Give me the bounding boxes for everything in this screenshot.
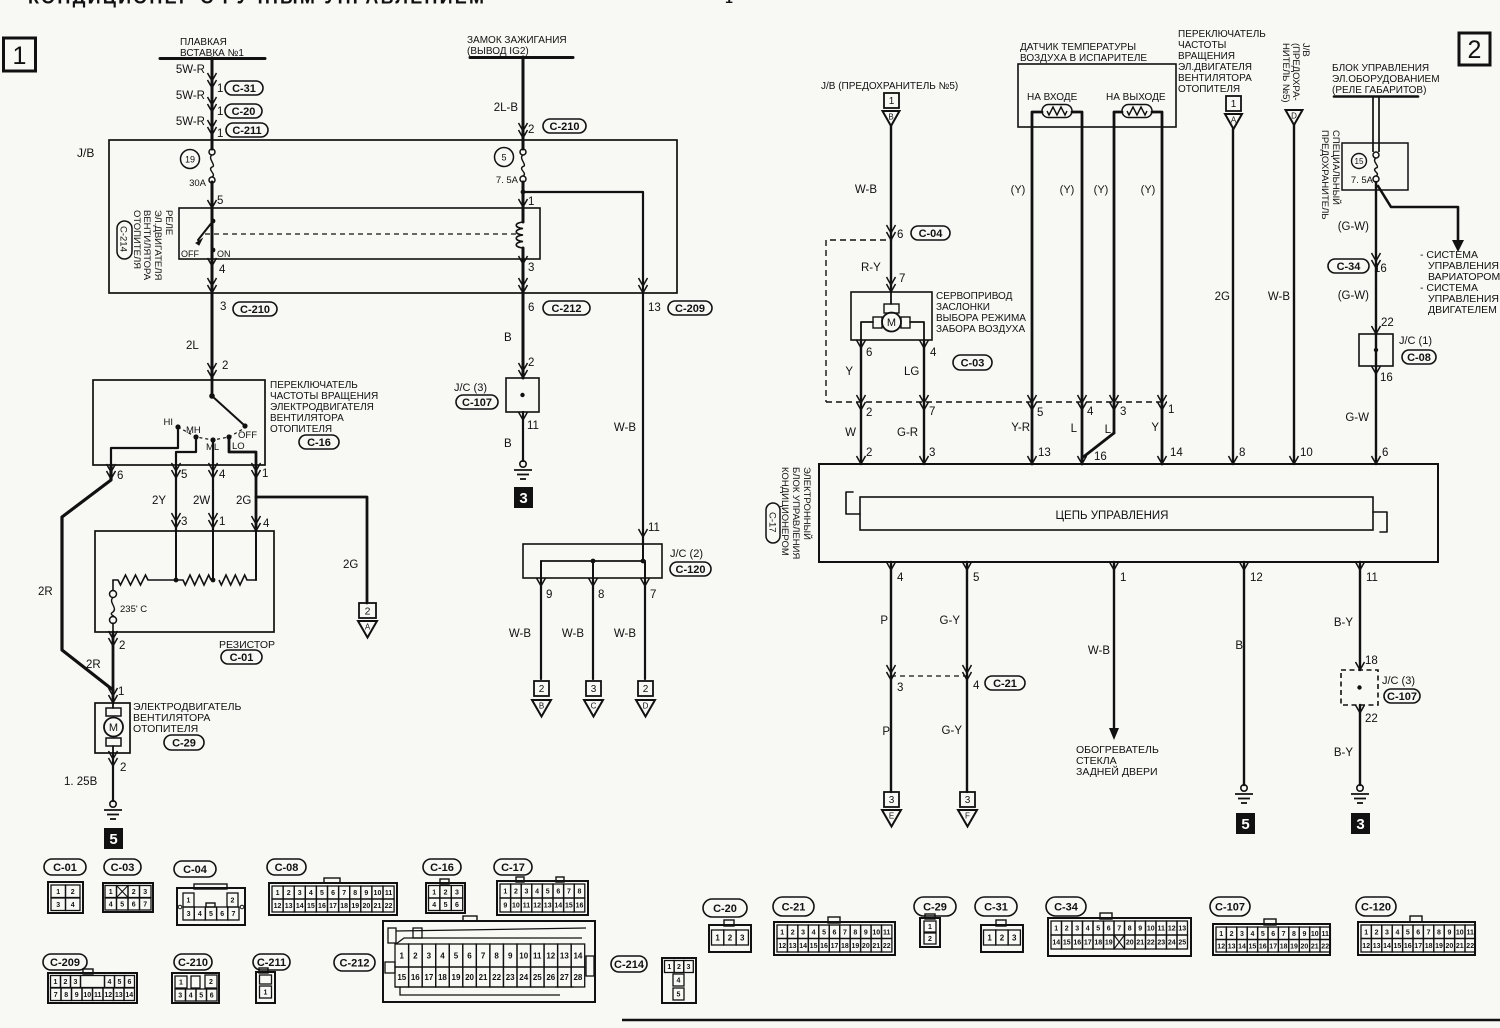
svg-text:2: 2 (1065, 926, 1069, 933)
ground ref 2/A (359, 603, 376, 618)
svg-text:9: 9 (508, 951, 513, 960)
svg-text:6: 6 (1382, 447, 1388, 459)
svg-text:5W-R: 5W-R (176, 90, 205, 102)
wire Y servo (860, 340, 862, 464)
svg-text:(Y): (Y) (1011, 184, 1026, 196)
svg-text:1: 1 (1054, 926, 1058, 933)
svg-text:8: 8 (353, 890, 357, 897)
svg-text:3: 3 (1385, 929, 1389, 936)
svg-text:3: 3 (56, 902, 60, 909)
fuse 5 7.5A (495, 148, 514, 167)
svg-text:C-209: C-209 (675, 303, 705, 315)
svg-text:22: 22 (1147, 940, 1155, 947)
svg-text:7: 7 (929, 406, 935, 418)
svg-text:C-120: C-120 (1361, 901, 1391, 913)
svg-text:7: 7 (143, 902, 147, 909)
svg-text:4: 4 (440, 951, 445, 960)
svg-text:B: B (504, 332, 512, 344)
svg-text:1: 1 (56, 889, 60, 896)
svg-text:14: 14 (554, 903, 562, 910)
svg-text:21: 21 (374, 903, 382, 910)
svg-text:C-17: C-17 (767, 512, 778, 533)
svg-text:13: 13 (285, 903, 293, 910)
svg-text:C-209: C-209 (50, 957, 80, 969)
svg-text:6: 6 (866, 347, 872, 359)
connector table C-211 (253, 954, 290, 970)
svg-text:ЗАБОРА ВОЗДУХА: ЗАБОРА ВОЗДУХА (936, 324, 1025, 335)
svg-text:1: 1 (400, 951, 405, 960)
evaporator air temp sensor box (1018, 64, 1176, 127)
svg-text:C-17: C-17 (501, 862, 525, 874)
ECU pin 1 output (1110, 562, 1119, 570)
svg-text:2G: 2G (343, 559, 358, 571)
svg-text:5: 5 (1406, 929, 1410, 936)
svg-text:2: 2 (71, 889, 75, 896)
ground ref 2/D (638, 681, 653, 696)
svg-text:7: 7 (54, 992, 58, 999)
svg-text:7. 5A: 7. 5A (1351, 175, 1374, 186)
ground ref box 5 right (1236, 813, 1255, 834)
resistor pin 4 (252, 523, 261, 531)
svg-text:2: 2 (64, 979, 68, 986)
svg-text:16: 16 (576, 903, 584, 910)
svg-text:1: 1 (528, 196, 534, 208)
svg-text:C-210: C-210 (178, 957, 208, 969)
svg-text:1: 1 (1364, 929, 1368, 936)
connector table C-107 (1210, 897, 1250, 916)
svg-text:4: 4 (432, 902, 436, 909)
svg-text:22: 22 (492, 973, 501, 982)
svg-text:ПРЕДОХРАНИТЕЛЬ: ПРЕДОХРАНИТЕЛЬ (1319, 130, 1330, 220)
svg-text:14: 14 (1383, 943, 1391, 950)
svg-text:P: P (880, 615, 888, 627)
svg-text:5: 5 (109, 831, 117, 848)
svg-text:5: 5 (454, 951, 459, 960)
blower motor box C-29 (95, 703, 130, 753)
svg-text:5: 5 (320, 890, 324, 897)
svg-text:1: 1 (264, 990, 268, 997)
wire 1.25B motor ground (112, 753, 114, 801)
ground (ECU pin12) (1241, 785, 1247, 791)
J/C(2) pin 7 (641, 578, 650, 586)
ECU pin 11 output (1356, 562, 1365, 570)
svg-text:6: 6 (117, 470, 123, 482)
svg-text:17: 17 (329, 903, 337, 910)
svg-text:23: 23 (1157, 940, 1165, 947)
harness pin 4 (1078, 402, 1087, 410)
svg-text:14: 14 (125, 992, 133, 999)
svg-text:1: 1 (276, 890, 280, 897)
svg-text:4: 4 (1250, 931, 1254, 938)
svg-text:19: 19 (452, 973, 461, 982)
connector table C-17 (494, 859, 532, 875)
svg-text:J/C (2): J/C (2) (670, 548, 703, 560)
svg-text:19: 19 (1105, 940, 1113, 947)
svg-text:2: 2 (1468, 36, 1482, 64)
svg-text:7: 7 (650, 589, 656, 601)
svg-text:7: 7 (899, 273, 905, 285)
svg-text:СПЕЦИАЛЬНЫЙ: СПЕЦИАЛЬНЫЙ (1330, 130, 1342, 205)
motor pin 2 (109, 758, 118, 766)
svg-text:13: 13 (560, 951, 569, 960)
wire G-W from special fuse (1375, 182, 1377, 464)
svg-text:Y: Y (1151, 422, 1159, 434)
svg-text:19: 19 (851, 943, 859, 950)
dashed connector boundary line (826, 401, 1167, 403)
page number box 1 (4, 38, 36, 71)
svg-text:2L: 2L (186, 340, 199, 352)
switch HI contact wire (111, 428, 178, 465)
svg-text:2: 2 (728, 933, 733, 942)
svg-text:19: 19 (1290, 943, 1298, 950)
svg-text:3: 3 (591, 684, 597, 695)
connector C-34 pin 16 (1372, 260, 1381, 268)
junction connector J/C(3) C-107 (506, 378, 539, 412)
svg-text:W-B: W-B (1088, 645, 1110, 657)
svg-text:12: 12 (778, 943, 786, 950)
svg-text:C-31: C-31 (232, 83, 256, 95)
svg-text:18: 18 (438, 973, 447, 982)
svg-text:(ВЫВОД IG2): (ВЫВОД IG2) (467, 46, 529, 57)
servo motor symbol (890, 292, 892, 304)
svg-text:C-03: C-03 (961, 357, 985, 369)
svg-text:8: 8 (598, 589, 604, 601)
switch pin 4 (209, 470, 218, 478)
svg-text:2R: 2R (38, 586, 53, 598)
switch C-16 oval (299, 435, 339, 449)
svg-text:12: 12 (274, 903, 282, 910)
svg-text:6: 6 (210, 993, 214, 1000)
svg-text:8: 8 (64, 992, 68, 999)
J/C(2) internal bus (642, 544, 644, 561)
svg-text:9: 9 (864, 929, 868, 936)
special fuse box (1342, 143, 1408, 190)
svg-text:8: 8 (494, 951, 499, 960)
thermal fuse 235C (112, 580, 114, 590)
svg-text:C-120: C-120 (676, 564, 706, 576)
svg-text:B: B (504, 438, 512, 450)
svg-text:C-08: C-08 (275, 862, 299, 874)
svg-text:10: 10 (374, 890, 382, 897)
dashed connector boundary C-04 (826, 240, 886, 402)
svg-text:22: 22 (1466, 943, 1474, 950)
svg-text:LO: LO (232, 441, 245, 452)
svg-text:3: 3 (1012, 933, 1017, 942)
svg-text:5: 5 (1096, 926, 1100, 933)
svg-text:4: 4 (677, 978, 681, 985)
switch pin 5 (172, 470, 181, 478)
svg-text:1: 1 (187, 898, 191, 905)
wire W-B ground D (644, 578, 646, 679)
svg-text:1: 1 (262, 468, 268, 480)
connector table C-21 (773, 897, 814, 916)
svg-text:2L-B: 2L-B (494, 102, 519, 114)
svg-text:4: 4 (219, 469, 226, 481)
svg-text:ВЕНТИЛЯТОРА: ВЕНТИЛЯТОРА (1178, 73, 1252, 84)
svg-text:LG: LG (904, 366, 919, 378)
svg-text:W-B: W-B (855, 184, 877, 196)
svg-text:ЦЕПЬ УПРАВЛЕНИЯ: ЦЕПЬ УПРАВЛЕНИЯ (1056, 510, 1169, 522)
wire B-Y upper (1359, 562, 1361, 670)
svg-text:16: 16 (820, 943, 828, 950)
ground ref box 3 right (1351, 813, 1370, 834)
ground ref 3/E (884, 792, 899, 807)
ground ref box 3 (514, 487, 533, 508)
svg-text:3: 3 (1240, 931, 1244, 938)
A/C electronic control unit box C-17 (819, 464, 1438, 562)
svg-text:4: 4 (1395, 929, 1399, 936)
svg-text:НА ВХОДЕ: НА ВХОДЕ (1027, 92, 1078, 103)
svg-text:C-04: C-04 (919, 228, 944, 240)
J/C(3) pin 22 (1356, 705, 1365, 713)
svg-text:C-212: C-212 (340, 957, 370, 969)
svg-text:НА ВЫХОДЕ: НА ВЫХОДЕ (1106, 92, 1166, 103)
wire W-B to rear heater (1113, 562, 1115, 730)
source ref box 1/B (884, 93, 899, 108)
svg-text:1: 1 (715, 933, 720, 942)
svg-text:12: 12 (1168, 926, 1176, 933)
fuse 15 7.5A (1352, 154, 1367, 169)
svg-text:11: 11 (94, 992, 102, 999)
svg-text:1: 1 (889, 96, 895, 107)
svg-text:3: 3 (525, 889, 529, 896)
svg-text:14: 14 (1238, 943, 1246, 950)
svg-text:W: W (845, 427, 856, 439)
svg-text:2Y: 2Y (152, 495, 166, 507)
svg-text:5: 5 (546, 889, 550, 896)
svg-text:C-214: C-214 (118, 226, 129, 252)
svg-text:ДВИГАТЕЛЕМ: ДВИГАТЕЛЕМ (1428, 304, 1497, 316)
svg-text:2W: 2W (193, 495, 210, 507)
svg-text:13: 13 (789, 943, 797, 950)
svg-text:4: 4 (1087, 406, 1094, 418)
svg-text:1. 25B: 1. 25B (64, 776, 98, 788)
svg-text:ПЛАВКАЯ: ПЛАВКАЯ (180, 37, 227, 48)
svg-text:7: 7 (481, 951, 486, 960)
svg-text:(РЕЛЕ ГАБАРИТОВ): (РЕЛЕ ГАБАРИТОВ) (1332, 85, 1426, 96)
svg-text:18: 18 (1365, 655, 1378, 667)
svg-text:3: 3 (801, 929, 805, 936)
connector table C-34 (1046, 897, 1086, 916)
J/C(2) pin 9 (537, 578, 546, 586)
svg-text:3: 3 (528, 262, 534, 274)
svg-text:9: 9 (1138, 926, 1142, 933)
switch MH contact wire (176, 438, 196, 465)
svg-text:5: 5 (1261, 931, 1265, 938)
blower motor C-29 oval (164, 735, 204, 750)
svg-text:15: 15 (1249, 943, 1257, 950)
svg-text:G-R: G-R (897, 427, 918, 439)
connector C-210 pin 2 junction (519, 130, 528, 138)
svg-text:13: 13 (1178, 926, 1186, 933)
svg-text:20: 20 (1126, 940, 1134, 947)
svg-text:B: B (1235, 640, 1243, 652)
wire R-Y (890, 240, 892, 292)
svg-text:ПЕРЕКЛЮЧАТЕЛЬ: ПЕРЕКЛЮЧАТЕЛЬ (1178, 29, 1266, 40)
svg-text:W-B: W-B (509, 628, 531, 640)
svg-text:1: 1 (1168, 404, 1174, 416)
svg-text:11: 11 (385, 890, 393, 897)
svg-text:2: 2 (791, 929, 795, 936)
svg-text:10: 10 (519, 951, 528, 960)
fusible link bus bar (160, 57, 265, 60)
svg-text:7: 7 (843, 929, 847, 936)
svg-text:F: F (965, 812, 970, 821)
svg-text:2: 2 (866, 447, 872, 459)
svg-text:1: 1 (217, 106, 223, 118)
svg-text:G-Y: G-Y (942, 725, 963, 737)
svg-text:A: A (1231, 116, 1237, 125)
svg-text:5: 5 (677, 992, 681, 999)
control circuit inner box (860, 497, 1373, 530)
connector C-212 pin 6 exit (519, 285, 528, 293)
svg-text:J/B (ПРЕДОХРАНИТЕЛЬ №5): J/B (ПРЕДОХРАНИТЕЛЬ №5) (821, 81, 958, 92)
outlet thermistor (1122, 105, 1152, 118)
J/C(3) pin 11 (519, 412, 528, 420)
svg-text:R-Y: R-Y (861, 262, 881, 274)
connector table C-210 (174, 954, 212, 970)
svg-text:C-214: C-214 (614, 959, 645, 971)
svg-text:11: 11 (1158, 926, 1166, 933)
ground ref 3/C (586, 681, 601, 696)
svg-text:9: 9 (546, 589, 552, 601)
svg-text:C-34: C-34 (1337, 261, 1362, 273)
svg-text:18: 18 (1094, 940, 1102, 947)
svg-text:5: 5 (209, 911, 213, 918)
wire Y-R (1031, 402, 1034, 464)
svg-text:1: 1 (432, 889, 436, 896)
svg-text:12: 12 (1362, 943, 1370, 950)
svg-text:E: E (889, 812, 894, 821)
wire 2G branch to ground ref A (256, 497, 367, 603)
svg-text:20: 20 (1301, 943, 1309, 950)
svg-text:J/C (3): J/C (3) (454, 382, 487, 394)
svg-text:C-20: C-20 (713, 903, 737, 915)
svg-text:ВЫБОРА РЕЖИМА: ВЫБОРА РЕЖИМА (936, 313, 1026, 324)
svg-text:ОТОПИТЕЛЯ: ОТОПИТЕЛЯ (1178, 84, 1240, 95)
svg-text:5: 5 (444, 902, 448, 909)
svg-text:2: 2 (444, 889, 448, 896)
junction connector J/C(2) C-120 box (523, 544, 662, 578)
svg-text:C-21: C-21 (993, 678, 1017, 690)
switch pin 6 (107, 471, 116, 479)
ECU pin 12 output (1240, 562, 1249, 570)
svg-text:W-B: W-B (614, 628, 636, 640)
svg-text:20: 20 (862, 943, 870, 950)
svg-text:MH: MH (186, 425, 201, 436)
connector table C-212 (334, 954, 375, 971)
wire W-B to ECU pin 10 (1293, 125, 1295, 464)
harness pin 7 (920, 402, 929, 410)
svg-text:5: 5 (181, 469, 187, 481)
connector C-04 pin 6 (887, 232, 896, 240)
svg-text:6: 6 (128, 979, 132, 986)
svg-text:ПЕРЕКЛЮЧАТЕЛЬ: ПЕРЕКЛЮЧАТЕЛЬ (270, 380, 358, 391)
svg-text:8: 8 (1292, 931, 1296, 938)
svg-text:C-210: C-210 (240, 304, 270, 316)
harness pin 1 (1158, 402, 1167, 410)
switch LO contact wire (229, 438, 256, 465)
svg-text:8: 8 (1437, 929, 1441, 936)
svg-text:J/B: J/B (77, 146, 94, 160)
svg-text:1: 1 (219, 516, 225, 528)
wire 5W-R main feed (211, 58, 214, 149)
C-21 dashed link (887, 672, 896, 680)
svg-text:1: 1 (928, 924, 932, 931)
svg-text:РЕЛЕ: РЕЛЕ (163, 210, 174, 235)
ground (ECU pin11) (1357, 785, 1363, 791)
switch contact dots (242, 423, 247, 428)
svg-text:W-B: W-B (1268, 291, 1290, 303)
svg-text:17: 17 (1414, 943, 1422, 950)
svg-text:3: 3 (427, 951, 432, 960)
svg-text:11: 11 (1466, 929, 1474, 936)
svg-text:16: 16 (1073, 940, 1081, 947)
svg-text:B-Y: B-Y (1334, 617, 1354, 629)
svg-text:C-21: C-21 (782, 901, 806, 913)
svg-text:ЭЛЕКТРОДВИГАТЕЛЯ: ЭЛЕКТРОДВИГАТЕЛЯ (270, 402, 374, 413)
servo C-03 oval (953, 355, 992, 370)
J/C(2) pin 8 (589, 578, 598, 586)
svg-text:22: 22 (385, 903, 393, 910)
svg-text:1: 1 (217, 83, 223, 95)
svg-text:1: 1 (503, 889, 507, 896)
svg-text:3: 3 (187, 911, 191, 918)
svg-text:4: 4 (973, 680, 980, 692)
svg-text:ЗАСЛОНКИ: ЗАСЛОНКИ (936, 302, 990, 313)
svg-text:19: 19 (351, 903, 359, 910)
svg-text:13: 13 (648, 302, 661, 314)
svg-text:30A: 30A (189, 178, 207, 189)
svg-text:5: 5 (217, 195, 223, 207)
svg-text:5W-R: 5W-R (176, 64, 205, 76)
svg-text:3: 3 (929, 447, 935, 459)
svg-text:14: 14 (799, 943, 807, 950)
svg-text:9: 9 (503, 903, 507, 910)
svg-text:6: 6 (1107, 926, 1111, 933)
switch common contact (211, 380, 214, 395)
svg-text:G-Y: G-Y (940, 615, 961, 627)
inlet sensor leads (1032, 112, 1042, 402)
svg-text:M: M (887, 317, 896, 329)
svg-text:21: 21 (1311, 943, 1319, 950)
svg-text:C-34: C-34 (1054, 901, 1079, 913)
svg-text:J/C (3): J/C (3) (1382, 675, 1415, 687)
svg-text:2R: 2R (86, 659, 101, 671)
svg-text:4: 4 (109, 902, 113, 909)
svg-text:13: 13 (544, 903, 552, 910)
svg-text:25: 25 (533, 973, 542, 982)
svg-text:22: 22 (883, 943, 891, 950)
ground ref box 5 left (104, 828, 123, 849)
svg-text:3: 3 (889, 795, 895, 806)
svg-text:(Y): (Y) (1060, 184, 1075, 196)
svg-text:22: 22 (1321, 943, 1329, 950)
svg-text:5: 5 (120, 902, 124, 909)
wire 2G switch to resistor (255, 465, 258, 531)
svg-text:5: 5 (501, 153, 506, 163)
J/C(1) pin 16 (1372, 366, 1381, 374)
svg-text:2: 2 (413, 951, 418, 960)
svg-text:11: 11 (523, 903, 531, 910)
svg-text:22: 22 (1365, 713, 1378, 725)
wire G-Y upper (966, 562, 968, 792)
svg-text:19: 19 (185, 155, 195, 165)
svg-text:2: 2 (539, 684, 545, 695)
relay internal dashed link (205, 233, 516, 235)
svg-text:C-16: C-16 (430, 862, 454, 874)
svg-text:10: 10 (1300, 447, 1313, 459)
